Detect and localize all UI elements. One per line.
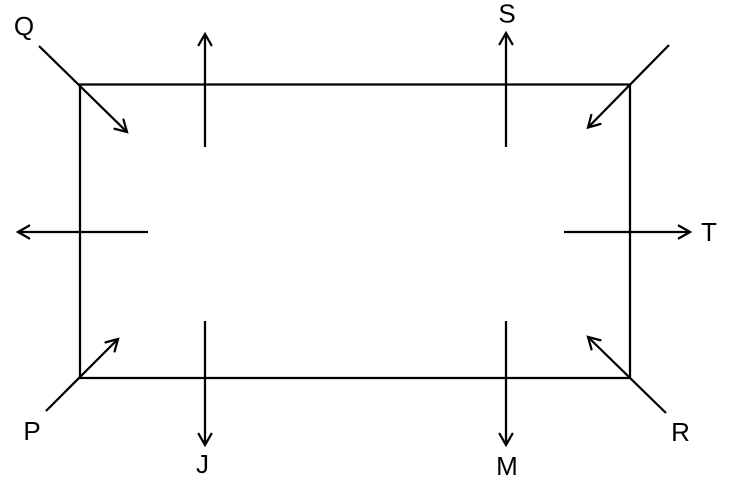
svg-text:J: J bbox=[196, 449, 209, 479]
arrow S (up through top edge) bbox=[505, 33, 507, 147]
svg-text:S: S bbox=[498, 0, 515, 29]
arrow R (diagonal into bottom-right corner) bbox=[588, 337, 666, 413]
arrow left unlabeled (through left edge) bbox=[18, 231, 148, 233]
arrow J (down through bottom edge) bbox=[204, 321, 206, 445]
svg-text:R: R bbox=[671, 417, 690, 447]
arrow inward at top-right corner (unlabeled) bbox=[588, 45, 669, 128]
rectangle body bbox=[80, 85, 630, 379]
arrow T (right through right edge) bbox=[564, 231, 690, 233]
arrow Q (diagonal into top-left corner) bbox=[39, 46, 127, 132]
arrow P (diagonal into bottom-left corner) bbox=[46, 339, 118, 411]
svg-text:Q: Q bbox=[14, 11, 34, 41]
svg-text:P: P bbox=[23, 416, 40, 446]
svg-text:M: M bbox=[496, 451, 518, 481]
arrow M (down through bottom edge) bbox=[505, 321, 507, 445]
arrow up unlabeled (top edge, left) bbox=[204, 34, 206, 147]
svg-text:T: T bbox=[701, 217, 717, 247]
